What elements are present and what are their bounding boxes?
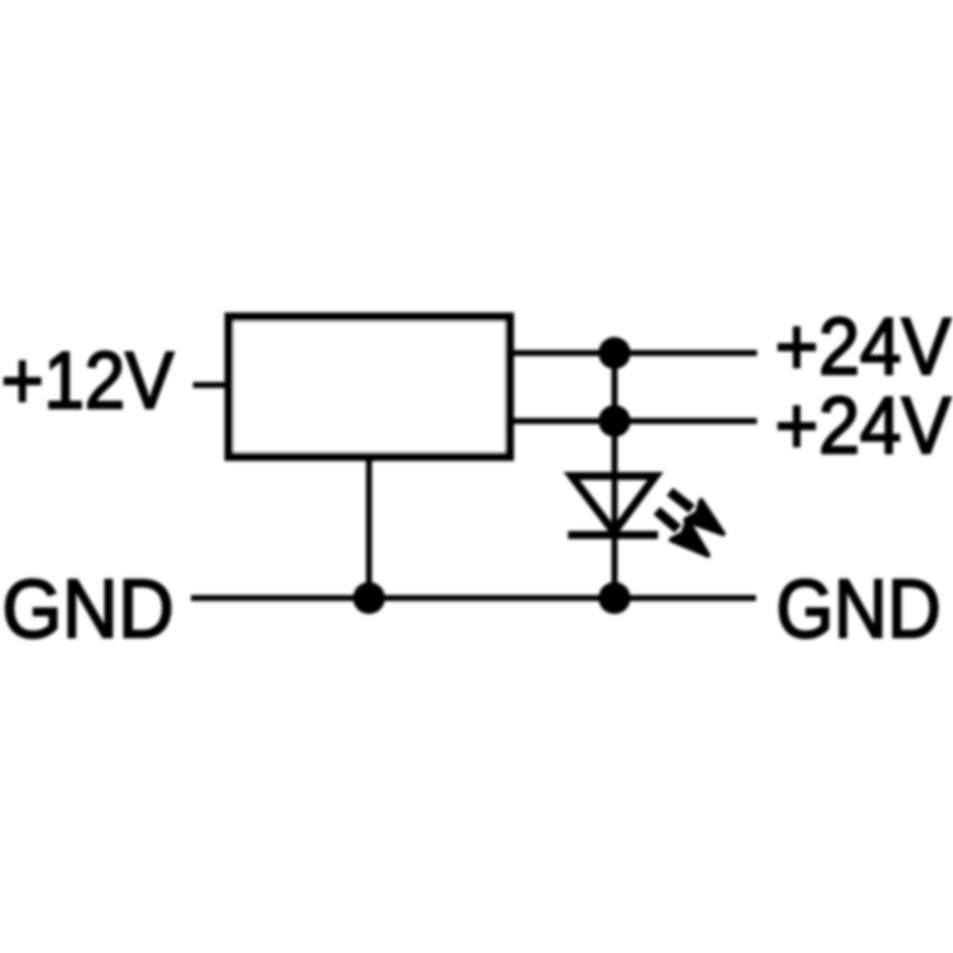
- LED D1 triangle: [572, 476, 656, 532]
- wire +12V input stub: [193, 382, 227, 388]
- svg-text:+24V: +24V: [775, 302, 951, 392]
- node junction dot top: [599, 337, 631, 369]
- wire +24V output top: [510, 350, 757, 356]
- node junction dot block-GND: [353, 582, 385, 614]
- wire +24V output second: [510, 418, 757, 424]
- svg-text:GND: GND: [2, 562, 174, 655]
- wire vertical LED branch: [612, 353, 618, 598]
- LED light arrow 2: [649, 501, 717, 564]
- node junction dot second: [599, 405, 631, 437]
- svg-text:GND: GND: [776, 562, 941, 655]
- svg-text:+12V: +12V: [1, 336, 174, 426]
- wire GND bus: [191, 595, 756, 601]
- LED light arrow 1: [662, 482, 731, 544]
- node junction dot LED-GND: [599, 582, 631, 614]
- svg-text:+24V: +24V: [775, 381, 951, 471]
- wire block bottom to GND: [366, 456, 372, 598]
- converter block U1: [229, 317, 510, 457]
- LED D1 cathode bar: [568, 531, 658, 539]
